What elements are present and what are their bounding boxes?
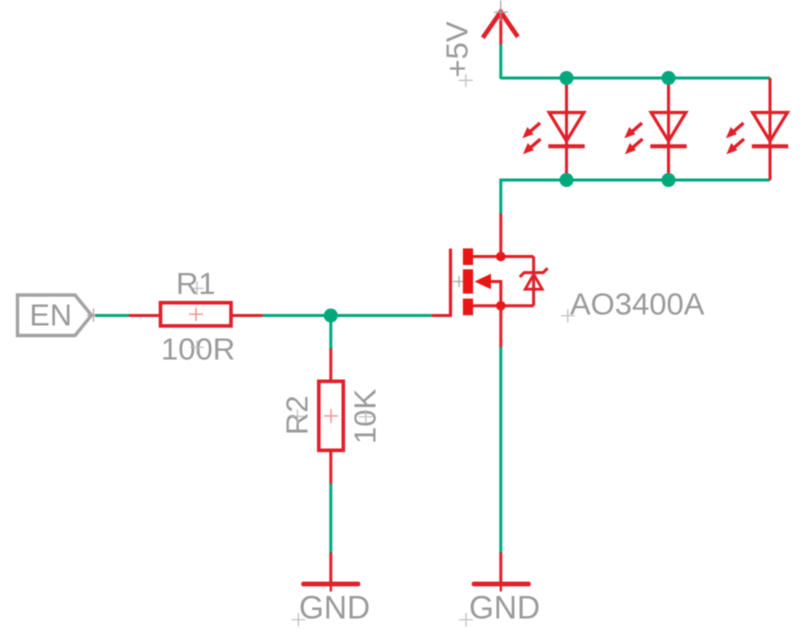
- pin flag EN: [18, 295, 92, 336]
- LED D2 cathode bar: [650, 144, 686, 148]
- junction drain node: [496, 252, 506, 262]
- svg-text:+5V: +5V: [440, 21, 475, 77]
- svg-text:100R: 100R: [161, 332, 235, 367]
- transistor Q1 body bar: [463, 269, 473, 293]
- svg-text:GND: GND: [299, 590, 370, 626]
- label R1 name cross: [190, 282, 204, 296]
- ground GND1 label cross: [291, 613, 305, 627]
- junction source node: [496, 301, 506, 311]
- transistor Q1 drain bar: [463, 248, 473, 265]
- junction D2 top: [662, 71, 676, 85]
- LED D2 anode wire: [667, 78, 670, 180]
- wire +5V down (net): [499, 44, 502, 79]
- resistor R1 left pin wire: [129, 314, 161, 317]
- wire source to GND (net): [499, 347, 502, 553]
- LED D2 light arrow 2: [625, 139, 643, 154]
- transistor Q1 drain wire: [473, 255, 534, 258]
- supply +5V origin cross: [494, 1, 508, 22]
- ground GND1 stub: [330, 584, 332, 592]
- supply +5V stem: [499, 12, 502, 45]
- supply +5V arrow: [483, 12, 518, 38]
- ground GND2 symbol bar: [474, 582, 529, 587]
- body diode triangle: [525, 274, 542, 289]
- junction D1 top: [560, 71, 574, 85]
- LED D3 light arrow 1: [726, 123, 744, 138]
- LED D2 triangle: [651, 113, 686, 142]
- transistor Q1 source bar: [463, 299, 473, 316]
- svg-text:EN: EN: [30, 299, 72, 333]
- transistor Q1 arrow to source wire: [490, 282, 501, 306]
- label R2 cross: [291, 410, 305, 424]
- ground GND2 label cross: [459, 613, 473, 627]
- resistor R1 right pin wire: [231, 314, 263, 317]
- wire source down red: [499, 306, 502, 348]
- resistor R2 origin cross: [324, 409, 338, 423]
- svg-text:AO3400A: AO3400A: [570, 287, 705, 322]
- wire gate segment red: [432, 314, 452, 317]
- resistor R1 body: [161, 303, 232, 326]
- LED D3 triangle: [753, 113, 788, 142]
- wire junction down to R2 (net): [329, 316, 332, 350]
- body diode zener cathode: [520, 268, 548, 277]
- resistor R2 body: [319, 381, 344, 450]
- wire top rail (net +5V): [501, 77, 770, 80]
- LED D1 anode wire: [565, 78, 568, 180]
- pin EN tip cross: [87, 309, 100, 322]
- wire EN to R1 (net): [95, 314, 130, 317]
- junction node at R2 top: [324, 309, 338, 323]
- label +5V cross: [459, 74, 473, 87]
- transistor Q1 source wire: [473, 304, 534, 307]
- LED D1 cathode bar: [548, 144, 584, 148]
- LED D3 light arrow 2: [726, 139, 744, 154]
- LED D1 light arrow 1: [522, 123, 540, 138]
- label 100R cross: [190, 341, 204, 355]
- svg-text:GND: GND: [469, 590, 540, 626]
- ground GND1 symbol bar: [304, 582, 359, 587]
- transistor Q1 origin cross: [453, 276, 464, 287]
- wire R1 to gate node (net): [263, 314, 432, 317]
- transistor Q1 substrate arrow: [475, 274, 492, 289]
- svg-text:R1: R1: [176, 266, 216, 301]
- resistor R2 bottom pin wire: [329, 450, 332, 484]
- junction D1 bottom: [560, 173, 574, 187]
- ground GND1 pin wire: [329, 553, 332, 585]
- transistor Q1 gate line: [449, 249, 452, 316]
- LED D3 anode wire: [769, 78, 772, 180]
- resistor R2 top pin wire: [329, 349, 332, 383]
- resistor R1 origin cross: [189, 308, 203, 322]
- label 10K cross: [359, 410, 373, 424]
- ground GND2 stub: [500, 584, 502, 592]
- wire drain to bottom rail (net): [501, 180, 770, 214]
- label AO3400A cross: [561, 309, 575, 323]
- body diode branch vertical: [532, 257, 535, 306]
- LED D1 triangle: [549, 113, 584, 142]
- LED D1 light arrow 2: [523, 139, 541, 154]
- wire drain up red: [499, 213, 502, 256]
- junction D2 bottom: [662, 173, 676, 187]
- wire R2 to GND (net): [329, 484, 332, 554]
- LED D3 cathode bar: [752, 144, 788, 148]
- LED D2 light arrow 1: [624, 123, 642, 138]
- ground GND2 pin wire: [499, 553, 502, 585]
